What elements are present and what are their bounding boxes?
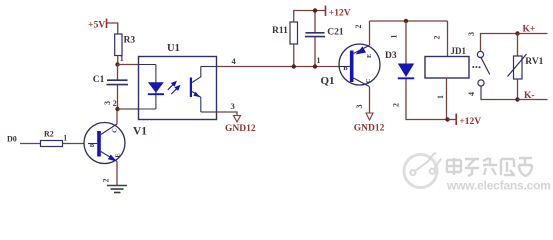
node D3 top junction dot [404,19,408,23]
wire D3 top stub [405,21,407,64]
resistor R11 [272,22,298,44]
svg-text:+12V: +12V [329,8,351,18]
U1 internal phototransistor [190,67,201,113]
svg-text:4: 4 [232,56,237,66]
svg-text:C: C [365,78,372,83]
wire Q1 emitter up to rail [369,21,371,45]
resistor R2 [41,130,63,147]
node R11 junction dot [292,64,296,68]
wire R3 to node 1 [117,56,119,65]
diode D3 [385,51,414,78]
svg-text:1: 1 [63,134,67,143]
svg-text:JD1: JD1 [451,46,467,56]
varistor RV1 [508,34,544,100]
U1 pin 4 stub [201,66,217,68]
power +5V symbol [88,19,106,31]
ground GND12 arrow (opto) [225,116,256,134]
ground earth symbol under V1 [107,186,127,193]
U1 internal LED [139,65,165,110]
svg-text:3: 3 [103,101,112,105]
wire U1 pin3 to GND12 [217,112,238,116]
power +12V symbol (bottom) [448,114,482,127]
node C21 top junction dot [313,8,317,12]
wire D3 bottom to +12V [406,79,448,120]
svg-text:1: 1 [436,95,445,99]
op-amp U1 optocoupler box [139,57,217,120]
U1 light arrows [168,82,180,94]
svg-text:2: 2 [433,36,442,40]
svg-text:GND12: GND12 [354,123,385,133]
svg-text:1: 1 [390,35,399,39]
wire top rail [370,20,448,22]
wire JD1 top stub [447,21,449,57]
wire K- rail [518,99,548,101]
svg-text:E: E [366,54,373,58]
svg-text:1: 1 [120,54,124,63]
relay JD1 linkage dots [472,66,480,68]
svg-text:3: 3 [467,32,476,36]
wire contact top to K+ [481,34,518,52]
wire Q1 collector down [369,87,371,113]
ground GND12 arrow (Q1) [354,113,385,133]
node +12V bottom junction dot [445,117,449,121]
capacitor C21 [305,11,344,67]
relay contact top [477,51,483,57]
wire +5V to R3 [107,23,118,34]
svg-text:K+: K+ [523,24,536,34]
wire node2 to U1 pin2 [118,108,139,110]
wire contact bottom to K- [481,86,518,99]
power +12V symbol (top) [326,6,351,19]
svg-text:1: 1 [317,56,321,65]
svg-text:E: E [115,153,122,157]
svg-text:R11: R11 [272,26,288,36]
U1 pin 3 stub [201,111,217,113]
svg-text:B: B [343,65,348,72]
svg-text:C: C [112,128,119,133]
svg-text:4: 4 [467,92,476,96]
svg-text:D3: D3 [385,51,397,61]
transistor Q1 [339,44,380,87]
svg-text:2: 2 [102,179,111,183]
wire V1 collector to node 2 [116,109,118,124]
svg-text:D0: D0 [7,134,17,143]
svg-text:3: 3 [355,105,364,109]
node 2 junction dot [115,107,119,111]
svg-text:2: 2 [354,25,363,29]
wire JD1 bottom stub [446,78,448,120]
svg-text:Q1: Q1 [321,75,335,87]
relay JD1 coil [425,46,469,78]
svg-text:+12V: +12V [459,117,481,127]
wire D0 to R2 [20,143,41,145]
transistor V1 [84,123,125,164]
svg-text:C1: C1 [93,75,105,85]
svg-text:www.elecfans.com: www.elecfans.com [446,179,551,193]
svg-text:2: 2 [113,99,117,108]
svg-text:GND12: GND12 [225,124,256,134]
resistor R3 [115,34,136,56]
relay contact blade [481,57,490,75]
svg-text:V1: V1 [133,126,147,138]
wire node1 to U1 pin1 [118,64,139,66]
capacitor C1 [93,65,128,110]
svg-text:RV1: RV1 [525,57,543,67]
node K- junction dot [515,97,519,101]
wire U1 pin4 net to Q1 base [217,66,340,68]
svg-text:C21: C21 [327,28,344,38]
wire R2 to V1 base [63,143,89,145]
wire R11 top rail to +12V [294,11,326,23]
wire R11 bottom to net [293,44,295,67]
node 1 junction dot [115,62,119,66]
svg-text:R2: R2 [44,130,54,139]
svg-text:B: B [90,142,95,149]
node C21 bottom junction dot [313,64,317,68]
svg-text:3: 3 [231,101,235,111]
wire K+ rail [518,33,548,35]
wire V1 emitter to ground [116,162,118,186]
watermark logo [404,155,437,188]
svg-text:R3: R3 [124,36,136,46]
svg-text:U1: U1 [167,43,180,54]
node K+ junction dot [515,31,519,35]
watermark chinese text strokes [447,158,532,176]
relay contact bottom [478,80,484,86]
svg-text:2: 2 [392,103,401,107]
svg-text:+5V: +5V [88,20,105,30]
